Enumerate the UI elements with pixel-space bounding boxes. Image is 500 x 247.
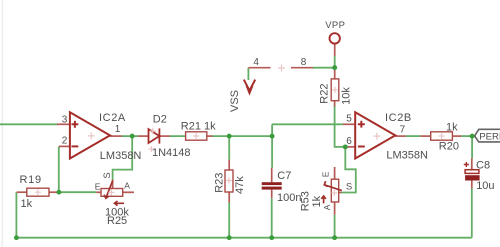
op-amp U IC2B bbox=[355, 112, 395, 158]
junction bottom rail R53 bbox=[332, 235, 337, 240]
svg-text:A: A bbox=[322, 204, 332, 210]
resistor R20 bbox=[431, 132, 453, 140]
pin stub IC2A pin3 bbox=[57, 123, 70, 125]
svg-text:E: E bbox=[320, 171, 330, 177]
pin stub R21 right bbox=[207, 135, 213, 137]
wire VPP circle to junction and R22 bbox=[334, 56, 336, 68]
pin stub R22 top bbox=[334, 69, 336, 79]
wire R21 to node at 272 bbox=[212, 135, 273, 137]
supply VSS arrow bbox=[244, 80, 255, 93]
pin stub IC2A pin2 bbox=[59, 145, 70, 147]
wire bottom rail up to C8 bbox=[471, 189, 473, 238]
supply VPP bbox=[330, 33, 340, 43]
pin stub R22 bottom bbox=[334, 101, 336, 107]
origin R21 bbox=[193, 133, 199, 139]
svg-text:8: 8 bbox=[301, 57, 307, 68]
wire R19 node to R25 E pin bbox=[59, 191, 97, 193]
svg-text:R23: R23 bbox=[214, 173, 226, 193]
pin stub C8 bottom bbox=[471, 181, 473, 189]
origin D2 name bbox=[150, 128, 156, 134]
svg-text:VPP: VPP bbox=[325, 20, 345, 31]
pin stub C7 top bbox=[271, 168, 273, 183]
resistor R23 bbox=[225, 170, 233, 192]
svg-text:100n: 100n bbox=[277, 192, 301, 204]
svg-text:47k: 47k bbox=[234, 176, 246, 194]
svg-text:IC2B: IC2B bbox=[385, 112, 412, 124]
svg-text:1: 1 bbox=[115, 124, 121, 135]
pin stub D2 cathode bbox=[159, 135, 169, 137]
wire bottom rail bbox=[16, 237, 471, 239]
svg-text:A: A bbox=[124, 181, 130, 191]
pin stub R19 right bbox=[49, 191, 59, 193]
junction at R23 top bbox=[227, 134, 232, 139]
pin stub R20 left bbox=[420, 135, 430, 137]
pin stub R25 A bbox=[123, 191, 134, 193]
pin stub R23 top bbox=[228, 160, 230, 170]
svg-text:7: 7 bbox=[400, 125, 406, 136]
svg-text:10u: 10u bbox=[476, 180, 494, 192]
trimmer R25 bbox=[101, 181, 124, 206]
wire 272 node to IC2B pin5 bbox=[272, 123, 343, 125]
pin stub IC2B pin6 bbox=[345, 146, 355, 148]
pin stub IC2B pin7 bbox=[395, 135, 406, 137]
pin stub R53 A bbox=[334, 202, 336, 215]
capacitor C7 bbox=[262, 182, 282, 189]
svg-text:D2: D2 bbox=[153, 114, 167, 126]
wire C7 bottom to rail bbox=[271, 198, 273, 237]
origin R19 bbox=[35, 189, 41, 195]
svg-text:3: 3 bbox=[62, 115, 68, 126]
wire input net to IC2A pin3 bbox=[0, 123, 57, 125]
wire pin8 stub to VPP net bbox=[313, 67, 335, 69]
pin stub R25 E bbox=[96, 191, 101, 193]
diode D2 bbox=[149, 128, 160, 143]
svg-text:C7: C7 bbox=[277, 170, 291, 182]
svg-text:4: 4 bbox=[253, 57, 259, 68]
wire R23 top bbox=[228, 136, 230, 160]
pin stub D2 anode bbox=[138, 135, 149, 137]
svg-text:1k: 1k bbox=[446, 121, 458, 133]
label flag PERIOD bbox=[475, 129, 500, 142]
wire R20 to PERIOD node bbox=[461, 135, 476, 137]
svg-text:R19: R19 bbox=[20, 174, 42, 186]
svg-text:2: 2 bbox=[62, 136, 68, 147]
svg-text:IC2A: IC2A bbox=[99, 112, 126, 124]
pin stub R19 left bbox=[17, 191, 27, 193]
pin stub power pin 4 bbox=[248, 67, 270, 69]
wire D2 cathode to R21 bbox=[169, 135, 185, 137]
svg-text:1k: 1k bbox=[21, 198, 33, 210]
svg-text:R53: R53 bbox=[300, 191, 312, 211]
pin stub R53 E bbox=[334, 167, 336, 179]
trimmer R53 bbox=[321, 179, 342, 203]
pin stub C7 bottom bbox=[271, 190, 273, 199]
svg-text:6: 6 bbox=[346, 136, 352, 147]
pin stub VPP bbox=[334, 44, 336, 56]
wire IC2B out to R20 bbox=[406, 135, 420, 137]
op-amp U IC2A bbox=[70, 112, 110, 158]
pin stub IC2B pin5 bbox=[343, 123, 356, 125]
junction at R19 right bbox=[56, 190, 61, 195]
svg-text:E: E bbox=[95, 181, 101, 191]
junction at IC2B pin6 bbox=[343, 144, 348, 149]
junction at IC2A output bbox=[130, 134, 135, 139]
svg-text:S: S bbox=[346, 182, 352, 193]
pin stub C8 top bbox=[471, 159, 473, 170]
wire R53 A pin to rail bbox=[334, 215, 336, 238]
origin power pins bbox=[278, 65, 285, 72]
capacitor C8 bbox=[464, 162, 480, 181]
svg-text:10k: 10k bbox=[341, 87, 353, 105]
svg-text:5: 5 bbox=[346, 114, 352, 125]
wire R22 bottom to pin6 node bbox=[335, 106, 346, 147]
frame border line bbox=[1, 0, 3, 247]
origin D2 value bbox=[149, 146, 155, 152]
pin stub IC2A pin1 bbox=[110, 135, 122, 137]
junction bottom rail R23 bbox=[227, 235, 232, 240]
pin stub R53 S bbox=[338, 192, 341, 194]
wire R19 left to bottom rail bbox=[15, 192, 17, 238]
origin IC2A bbox=[88, 132, 95, 139]
origin R53 bbox=[331, 190, 337, 196]
junction at node 272 bbox=[270, 134, 275, 139]
origin R25 bbox=[108, 189, 114, 195]
svg-text:LM358N: LM358N bbox=[386, 150, 428, 162]
wire VSS stem bbox=[247, 68, 249, 80]
svg-text:1N4148: 1N4148 bbox=[152, 147, 191, 159]
svg-text:S: S bbox=[102, 172, 113, 178]
wire PERIOD node down to C8 bbox=[471, 136, 473, 158]
pin stub R20 right bbox=[452, 135, 461, 137]
wire IC2A out to D2 anode bbox=[122, 135, 139, 137]
junction at VPP bbox=[332, 65, 337, 70]
resistor R22 bbox=[331, 79, 339, 101]
svg-text:VSS: VSS bbox=[229, 90, 241, 112]
pin stub R25 S bbox=[112, 180, 114, 189]
resistor R19 bbox=[27, 188, 49, 196]
junction bottom rail left bbox=[14, 235, 19, 240]
wire pin6 node down to R53 S pin bbox=[342, 147, 356, 193]
origin R23 bbox=[226, 178, 232, 184]
wire vertical 272 node up/down to C7 bbox=[271, 124, 273, 168]
origin R22 bbox=[332, 87, 338, 93]
svg-text:LM358N: LM358N bbox=[100, 150, 142, 162]
resistor R21 bbox=[186, 132, 207, 140]
origin R20 bbox=[439, 133, 445, 139]
svg-text:PERIOD: PERIOD bbox=[479, 131, 500, 142]
svg-text:R21 1k: R21 1k bbox=[181, 120, 216, 132]
pin stub power pin 8 bbox=[291, 67, 313, 69]
wire R23 bottom to rail bbox=[228, 203, 230, 238]
svg-text:R20: R20 bbox=[439, 140, 459, 152]
wire feedback from output junction to R25 S pin bbox=[113, 136, 133, 180]
svg-text:C8: C8 bbox=[476, 160, 490, 172]
origin IC2B bbox=[373, 133, 380, 140]
svg-text:R25: R25 bbox=[107, 215, 127, 227]
wire IC2A pin2 down to R19 node bbox=[58, 146, 60, 192]
pin stub R23 bottom bbox=[228, 192, 230, 203]
rotated labels bbox=[214, 84, 353, 212]
junction bottom rail C7 bbox=[269, 235, 274, 240]
junction at PERIOD node bbox=[470, 134, 475, 139]
svg-text:R22: R22 bbox=[319, 84, 331, 104]
